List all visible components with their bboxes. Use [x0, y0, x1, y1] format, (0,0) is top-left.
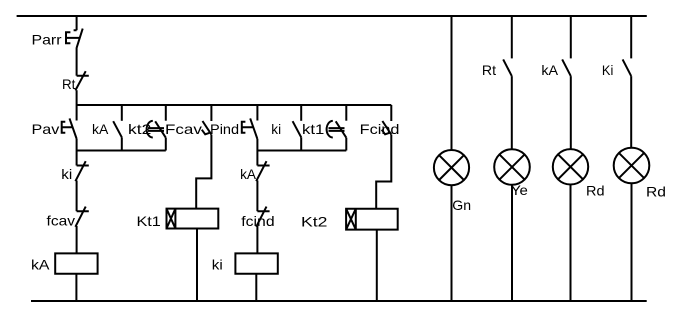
wire: kA branch lower [121, 137, 123, 150]
contact kt1 (timed NO) [327, 121, 347, 138]
timer coil Kt2 [346, 209, 398, 230]
wire: ki branch lower [300, 137, 302, 150]
svg-text:Fcind: Fcind [360, 121, 400, 137]
wire: Fcav down with jog to Kt1 coil [196, 135, 211, 209]
contact ki (NO) [293, 121, 302, 137]
wire: lamp branch Gn upper [451, 15, 453, 150]
svg-text:Rt: Rt [482, 62, 496, 78]
svg-text:kA: kA [240, 166, 257, 182]
svg-text:kt1: kt1 [302, 121, 325, 137]
svg-text:Pav: Pav [32, 121, 60, 137]
svg-text:kA: kA [92, 121, 109, 137]
wire: fcav to kA coil [76, 226, 78, 253]
wire: Ki contact to lamp Rd2 [630, 76, 632, 148]
lamp Ye [494, 149, 530, 185]
wire: ki coil to bottom bus [255, 274, 257, 301]
wire: node line down to Pind [256, 105, 258, 121]
pushbutton Parr (NC) [66, 29, 83, 48]
svg-text:ki: ki [61, 166, 72, 182]
node line (top of parallel groups) [77, 104, 392, 106]
svg-text:Pind: Pind [210, 121, 239, 137]
svg-text:Rd: Rd [586, 183, 605, 199]
wire: kt2 branch lower [165, 138, 167, 151]
wire: kA contact to lamp Rd1 [570, 76, 572, 149]
wire: Pind to right group bottom [256, 139, 258, 151]
wire: lamp branch Rd2 upper [630, 15, 632, 58]
contact ki (NC) [75, 161, 88, 181]
top bus [17, 15, 647, 17]
limit switch Fcav (NO) [202, 121, 212, 135]
wire: kA branch upper [121, 105, 123, 121]
svg-text:Kt1: Kt1 [137, 213, 162, 229]
wire: node line to Pav [76, 105, 78, 121]
wire: left group bottom to ki [76, 151, 78, 166]
wire: ki to fcav [76, 181, 78, 212]
wire: Rt contact to lamp Ye [511, 76, 513, 149]
svg-text:ki: ki [212, 257, 223, 273]
right group bottom line [257, 150, 346, 152]
timer coil Kt1 [167, 209, 219, 229]
wire: ki branch upper [300, 105, 302, 121]
wire: lamp Gn to bottom bus [451, 185, 453, 301]
contact fcav (NC) [75, 207, 88, 227]
left group bottom line [77, 150, 166, 152]
wire: Rt to node line [76, 90, 78, 105]
pushbutton Pav (NO) [62, 118, 77, 139]
svg-text:Rd: Rd [646, 184, 666, 200]
wire: fcind to ki coil [256, 226, 258, 253]
svg-text:Fcav: Fcav [165, 121, 202, 137]
coil ki [235, 253, 277, 273]
svg-text:Ki: Ki [602, 62, 613, 78]
svg-text:kA: kA [541, 62, 558, 78]
coil kA [55, 253, 97, 273]
svg-text:ki: ki [271, 121, 281, 137]
svg-text:Parr: Parr [32, 31, 62, 47]
contact Ki (NO) [623, 59, 632, 76]
contact kA (NC) [256, 161, 269, 181]
contact Rt (NO) [503, 59, 512, 76]
wire: Fcind down with jog to Kt2 coil [376, 135, 391, 209]
wire: kt2 branch upper [165, 105, 167, 121]
lamp Gn [434, 150, 469, 185]
svg-text:fcind: fcind [241, 213, 274, 229]
wire: Parr to Rt [76, 47, 78, 75]
contact kt2 (timed NO) [147, 121, 166, 138]
pushbutton Pind (NO) [242, 118, 258, 139]
wire: Pav to left group bottom [76, 139, 78, 151]
wire: lamp branch Rd1 upper [570, 15, 572, 58]
wire: kA coil to bottom bus [75, 274, 77, 301]
svg-text:Ye: Ye [511, 182, 528, 198]
lamp Rd2 [614, 148, 650, 184]
wire: top bus down to Parr [74, 15, 77, 30]
wire: kA to fcind [256, 181, 258, 212]
svg-text:Gn: Gn [452, 197, 471, 213]
wire: lamp Ye to bottom bus [511, 185, 513, 301]
svg-text:Kt2: Kt2 [301, 213, 328, 229]
svg-text:kt2: kt2 [128, 121, 152, 137]
contact kA (NO) [562, 59, 571, 76]
wire: Kt1 coil to bottom bus [196, 229, 198, 302]
lamp Rd1 [553, 149, 588, 184]
wire: lamp branch Ye upper [511, 15, 513, 58]
contact fcind (NC) [256, 207, 269, 227]
contact Rt (NC thermal) [75, 71, 88, 90]
svg-text:kA: kA [31, 257, 50, 273]
wire: Fcind branch upper [390, 105, 392, 121]
limit switch Fcind (NO) [382, 121, 392, 135]
wire: right group bottom to kA [256, 151, 258, 166]
wire: kt1 branch upper [345, 105, 347, 121]
svg-text:fcav: fcav [47, 213, 76, 229]
wire: kt1 branch lower [345, 138, 347, 151]
wire: lamp Rd1 to bottom bus [570, 185, 572, 302]
wire: lamp Rd2 to bottom bus [631, 183, 633, 301]
wire: Kt2 coil to bottom bus [376, 230, 378, 301]
contact kA (NO) [113, 121, 122, 137]
bottom bus [31, 300, 647, 302]
svg-text:Rt: Rt [62, 76, 76, 92]
wire: Fcav branch upper [210, 105, 212, 121]
